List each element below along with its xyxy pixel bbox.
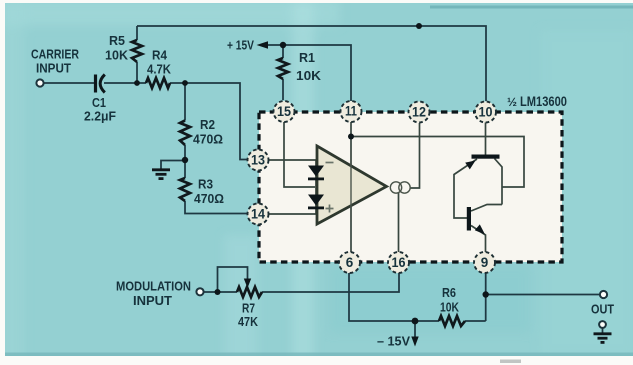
svg-text:6: 6 bbox=[346, 255, 354, 270]
svg-text:15: 15 bbox=[277, 104, 291, 119]
svg-text:R1: R1 bbox=[299, 50, 315, 65]
svg-text:12: 12 bbox=[412, 105, 426, 120]
svg-text:10: 10 bbox=[479, 105, 493, 120]
svg-text:R5: R5 bbox=[109, 33, 125, 48]
svg-text:– 15V: – 15V bbox=[377, 334, 410, 349]
svg-text:CARRIER: CARRIER bbox=[31, 47, 79, 62]
svg-text:MODULATION: MODULATION bbox=[116, 279, 191, 294]
svg-text:INPUT: INPUT bbox=[133, 293, 172, 308]
svg-text:470Ω: 470Ω bbox=[194, 191, 224, 206]
svg-text:2.2μF: 2.2μF bbox=[84, 109, 116, 124]
svg-text:INPUT: INPUT bbox=[36, 61, 71, 76]
svg-text:R6: R6 bbox=[442, 285, 456, 300]
svg-text:47K: 47K bbox=[238, 314, 259, 329]
svg-text:10K: 10K bbox=[296, 68, 322, 83]
svg-text:LM13600: LM13600 bbox=[520, 93, 567, 109]
svg-text:R2: R2 bbox=[200, 117, 215, 132]
svg-text:16: 16 bbox=[392, 255, 406, 270]
svg-text:10K: 10K bbox=[440, 300, 459, 315]
svg-text:9: 9 bbox=[481, 255, 489, 270]
svg-text:10K: 10K bbox=[105, 48, 129, 63]
svg-text:½: ½ bbox=[507, 95, 517, 109]
svg-text:13: 13 bbox=[251, 153, 265, 168]
svg-text:470Ω: 470Ω bbox=[193, 132, 223, 147]
svg-text:4.7K: 4.7K bbox=[147, 62, 172, 77]
svg-text:OUT: OUT bbox=[591, 302, 614, 317]
svg-text:R4: R4 bbox=[152, 48, 168, 63]
svg-text:11: 11 bbox=[345, 104, 357, 119]
svg-text:+ 15V: + 15V bbox=[227, 38, 254, 53]
svg-text:R3: R3 bbox=[198, 177, 213, 192]
svg-text:14: 14 bbox=[251, 207, 265, 222]
